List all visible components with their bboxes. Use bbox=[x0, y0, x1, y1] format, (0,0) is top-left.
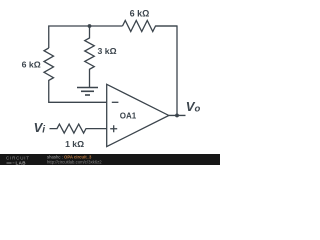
svg-text:http://circuitlab.com/c/3xk6z2: http://circuitlab.com/c/3xk6z2 bbox=[47, 160, 102, 165]
svg-text:OA1: OA1 bbox=[120, 111, 137, 120]
svg-text:1 kΩ: 1 kΩ bbox=[65, 139, 84, 149]
svg-text:3 kΩ: 3 kΩ bbox=[98, 46, 117, 56]
svg-text:LAB: LAB bbox=[16, 161, 27, 166]
svg-text:shashc : OPA circuit_3: shashc : OPA circuit_3 bbox=[47, 155, 92, 160]
svg-text:6 kΩ: 6 kΩ bbox=[130, 9, 150, 19]
svg-text:CIRCUIT: CIRCUIT bbox=[6, 155, 30, 160]
svg-text:6 kΩ: 6 kΩ bbox=[22, 60, 41, 70]
